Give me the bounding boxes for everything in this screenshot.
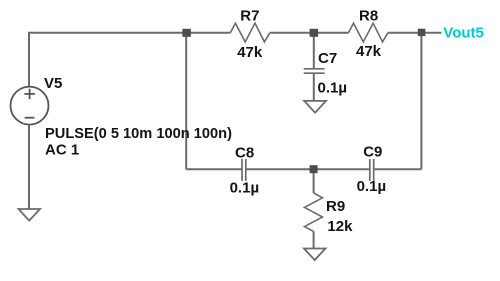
svg-text:0.1µ: 0.1µ [318, 79, 348, 96]
svg-text:0.1µ: 0.1µ [357, 178, 387, 195]
svg-text:PULSE(0 5 10m 100n 100n): PULSE(0 5 10m 100n 100n) [45, 125, 232, 142]
svg-text:47k: 47k [237, 44, 263, 61]
svg-text:12k: 12k [327, 218, 353, 235]
svg-text:R8: R8 [359, 8, 378, 25]
svg-text:0.1µ: 0.1µ [230, 179, 260, 196]
svg-text:C9: C9 [363, 144, 382, 161]
svg-text:Vout5: Vout5 [443, 25, 484, 42]
svg-text:R9: R9 [326, 198, 345, 215]
svg-text:C8: C8 [235, 145, 254, 162]
svg-text:V5: V5 [44, 75, 62, 92]
svg-text:C7: C7 [318, 50, 337, 67]
svg-text:AC 1: AC 1 [45, 142, 79, 159]
svg-text:47k: 47k [356, 43, 382, 60]
svg-text:R7: R7 [240, 8, 259, 25]
